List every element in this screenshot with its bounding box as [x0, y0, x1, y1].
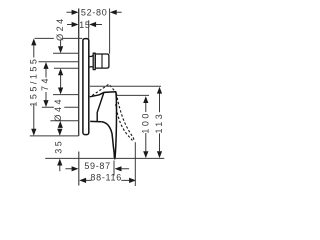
dim 113 stems [159, 94, 161, 152]
arrow 15 right [89, 22, 96, 27]
handle hub top edge [90, 95, 100, 97]
extension line plate top [35, 37, 83, 39]
lever blade solid [99, 92, 116, 159]
handle hub bottom edge [90, 120, 102, 122]
arrow 155 top [31, 39, 36, 46]
reference line bottom [45, 157, 164, 159]
arrow 35 top [57, 129, 62, 136]
extension line hub top right [117, 94, 149, 96]
arrow 100 bottom [143, 151, 148, 158]
labels horizontal [79, 8, 122, 183]
arrow 113 bottom [157, 151, 162, 158]
extension bar dashed tip [134, 142, 136, 186]
extension line knob top [53, 52, 78, 54]
arrow 155 bottom [31, 129, 36, 136]
dim 74 stems [45, 69, 47, 100]
svg-text:59-87: 59-87 [84, 161, 111, 171]
svg-text:Ø44: Ø44 [53, 97, 63, 122]
extension line hub bottom [50, 120, 78, 122]
arrow O44 bottom [58, 121, 63, 128]
svg-text:113: 113 [154, 112, 164, 134]
arrow O24 bottom [58, 68, 63, 75]
arrow 52-80 right [110, 10, 117, 15]
dashed handle raised: top edge [92, 84, 116, 95]
escutcheon plate [83, 39, 89, 135]
dim 52-80 tails [67, 11, 122, 13]
arrow 35 bottom [57, 159, 62, 166]
arrow O24 top [58, 46, 63, 53]
dim 155/155 stems [33, 45, 35, 129]
arrowheads [31, 10, 162, 183]
knob body [95, 54, 109, 68]
extension line handle top raised [90, 85, 161, 87]
dim 35 bottom stem [59, 165, 61, 171]
arrow 113 top [157, 87, 162, 94]
dashed handle raised: inner edge [116, 104, 133, 141]
dim 88-116 line pieces [86, 179, 130, 181]
wall extension bar bottom [78, 152, 80, 186]
arrow 88-116 left [79, 178, 86, 183]
extension line hub top [53, 94, 78, 96]
arrow 74 top [43, 62, 48, 69]
extension line knob bottom [54, 67, 78, 69]
extension bar knob face [109, 9, 111, 54]
svg-text:35: 35 [54, 139, 64, 154]
svg-text:155/155: 155/155 [28, 57, 38, 107]
extension line knob axis [39, 61, 79, 63]
knob seam [101, 54, 103, 68]
arrow 74 bottom [43, 100, 48, 107]
extension line hub axis [42, 106, 78, 108]
svg-text:15: 15 [79, 20, 90, 30]
extension bar plate face [88, 20, 90, 38]
arrow 52-80 left [72, 10, 79, 15]
dim 15 tails [67, 24, 102, 26]
svg-text:74: 74 [40, 76, 50, 91]
knob flange [93, 53, 95, 69]
arrow 15 left [72, 22, 79, 27]
arrow 88-116 right [129, 178, 136, 183]
knob neck [90, 55, 94, 67]
svg-text:Ø24: Ø24 [55, 16, 65, 41]
arrow 59-87 left [72, 166, 79, 171]
svg-text:52-80: 52-80 [81, 8, 108, 18]
dim 100 stems [145, 103, 147, 151]
svg-text:100: 100 [141, 111, 151, 134]
arrow 59-87 right [115, 166, 122, 171]
extension bar solid tip [113, 161, 115, 176]
extension line plate bottom [30, 135, 79, 137]
svg-text:88-116: 88-116 [90, 173, 122, 183]
labels rotated [28, 16, 164, 153]
dim O24-O44 shared stems [60, 40, 62, 88]
dim 59-87 tails [65, 168, 129, 170]
dashed handle raised: outer edge [117, 94, 134, 141]
arrow O44 top [58, 88, 63, 95]
wall line [78, 9, 80, 136]
arrow 100 top [143, 96, 148, 103]
hub-blade separation line [97, 92, 104, 121]
